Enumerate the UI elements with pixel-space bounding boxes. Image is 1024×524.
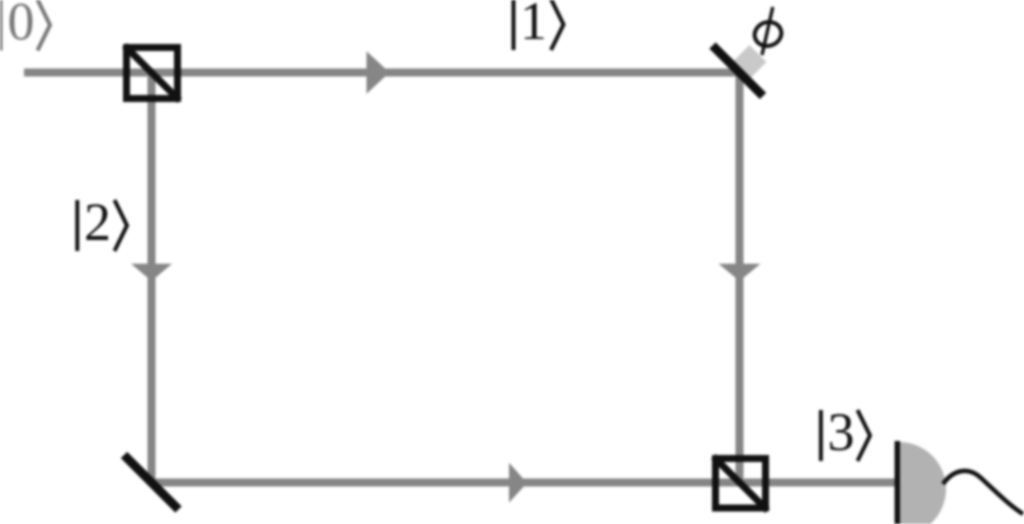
svg-text:3: 3 xyxy=(828,402,855,462)
svg-text:1: 1 xyxy=(520,0,547,51)
svg-text:2: 2 xyxy=(84,192,111,252)
svg-text:0: 0 xyxy=(8,0,35,52)
